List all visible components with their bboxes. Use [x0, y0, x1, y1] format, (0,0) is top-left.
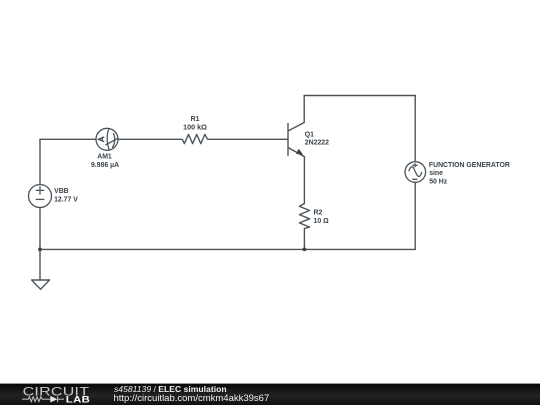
wire R2 to bottom: [303, 229, 305, 250]
junction node at R2 bottom: [303, 248, 307, 252]
wire top-left horizontal: [40, 138, 96, 140]
wire left vertical VBB top: [39, 139, 41, 184]
svg-text:AM1: AM1: [97, 154, 112, 161]
svg-text:sine: sine: [429, 170, 443, 177]
label A in ammeter: [99, 137, 105, 142]
footer bar: [0, 384, 540, 405]
ground: [32, 280, 50, 289]
function generator V1: [405, 162, 426, 183]
wire top right horizontal: [304, 95, 415, 97]
svg-text:R2: R2: [314, 210, 323, 217]
label Q1: [305, 131, 329, 146]
label VBB: [54, 188, 78, 204]
svg-text:12.77 V: 12.77 V: [54, 197, 78, 204]
wire collector vertical: [303, 96, 305, 123]
svg-text:100 kΩ: 100 kΩ: [183, 122, 207, 131]
junction node at VBB bottom: [38, 248, 42, 252]
voltage source VBB: [29, 185, 52, 208]
wire R1 to Q1 base: [208, 138, 288, 140]
emitter arrow Q1: [296, 149, 303, 155]
label R1: [183, 116, 207, 131]
svg-text:10 Ω: 10 Ω: [314, 218, 330, 225]
wire ground stem: [39, 249, 41, 280]
svg-text:LAB: LAB: [66, 395, 91, 405]
svg-text:Q1: Q1: [305, 131, 314, 138]
svg-text:50 Hz: 50 Hz: [429, 178, 448, 185]
label AM1: [91, 154, 119, 169]
label R2: [314, 210, 330, 225]
logo resistor-diode glyph: [22, 396, 64, 402]
wire VBB bottom: [39, 208, 41, 250]
svg-text:http://circuitlab.com/cmkm4akk: http://circuitlab.com/cmkm4akk39s67: [114, 393, 270, 404]
svg-text:VBB: VBB: [54, 188, 69, 195]
svg-text:FUNCTION GENERATOR: FUNCTION GENERATOR: [429, 162, 510, 169]
svg-text:9.986 µA: 9.986 µA: [91, 162, 119, 169]
resistor R1: [182, 134, 207, 143]
label FUNCTION GENERATOR: [429, 162, 510, 186]
logo diode triangle: [50, 396, 57, 403]
wire ammeter to R1: [118, 138, 182, 140]
wire right vertical bottom: [414, 182, 416, 249]
resistor R2: [299, 204, 309, 229]
wire right vertical top: [414, 96, 416, 162]
wire emitter to R2: [303, 157, 305, 204]
svg-text:2N2222: 2N2222: [305, 139, 329, 146]
transistor Q1: [288, 123, 304, 157]
ammeter AM1: [96, 128, 118, 150]
wire bottom horizontal: [40, 248, 415, 250]
